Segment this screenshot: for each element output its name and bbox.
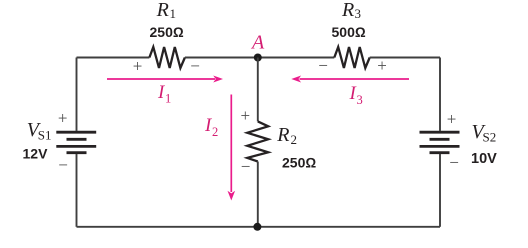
svg-text:3: 3 (357, 93, 363, 107)
label R1 (156, 0, 176, 21)
wire right lower (439, 154, 441, 227)
svg-text:−: − (190, 56, 200, 75)
svg-text:+: + (241, 106, 251, 125)
label VS2 (472, 121, 497, 145)
wire right upper (439, 58, 441, 131)
wire top-middle segment (185, 57, 334, 59)
svg-text:R: R (276, 124, 289, 146)
svg-text:R: R (156, 0, 169, 21)
svg-text:3: 3 (355, 6, 362, 21)
wire left upper (76, 58, 78, 131)
svg-text:250Ω: 250Ω (282, 155, 316, 171)
current arrow I2 (228, 95, 236, 201)
svg-text:−: − (318, 56, 328, 75)
svg-text:+: + (447, 110, 457, 129)
current arrow I1 (107, 76, 223, 83)
svg-text:2: 2 (212, 125, 218, 139)
wire bottom segment (77, 226, 441, 228)
label R3 (341, 0, 361, 21)
svg-text:1: 1 (170, 6, 177, 21)
svg-text:S2: S2 (483, 130, 497, 145)
battery VS1 (56, 132, 96, 153)
svg-text:+: + (58, 109, 68, 128)
svg-text:10V: 10V (471, 151, 497, 167)
label I2 (204, 115, 218, 139)
label VS1 (27, 119, 52, 143)
svg-text:R: R (341, 0, 354, 21)
resistor R1 (149, 47, 185, 68)
wire middle branch lower (257, 162, 259, 227)
battery VS2 (420, 132, 460, 153)
label I3 (349, 83, 363, 107)
svg-text:500Ω: 500Ω (332, 24, 366, 40)
svg-text:−: − (241, 157, 251, 176)
wire middle branch upper (257, 58, 259, 122)
current arrow I3 (291, 76, 409, 83)
wire top-left segment (77, 57, 150, 59)
wire top-right segment (370, 57, 440, 59)
svg-text:2: 2 (291, 132, 298, 147)
svg-text:+: + (133, 56, 143, 75)
svg-text:−: − (58, 155, 68, 174)
bottom junction dot (253, 223, 261, 231)
svg-text:S1: S1 (38, 128, 52, 143)
svg-text:1: 1 (165, 92, 171, 106)
wire left lower (76, 154, 78, 227)
svg-text:250Ω: 250Ω (150, 24, 184, 40)
node A dot (254, 54, 262, 62)
resistor R2 (247, 121, 268, 161)
svg-text:−: − (449, 153, 459, 172)
resistor R3 (334, 47, 369, 68)
svg-text:+: + (377, 56, 387, 75)
svg-text:A: A (250, 32, 265, 54)
label R2 (276, 124, 297, 147)
svg-text:12V: 12V (23, 146, 49, 162)
label I1 (157, 82, 171, 106)
